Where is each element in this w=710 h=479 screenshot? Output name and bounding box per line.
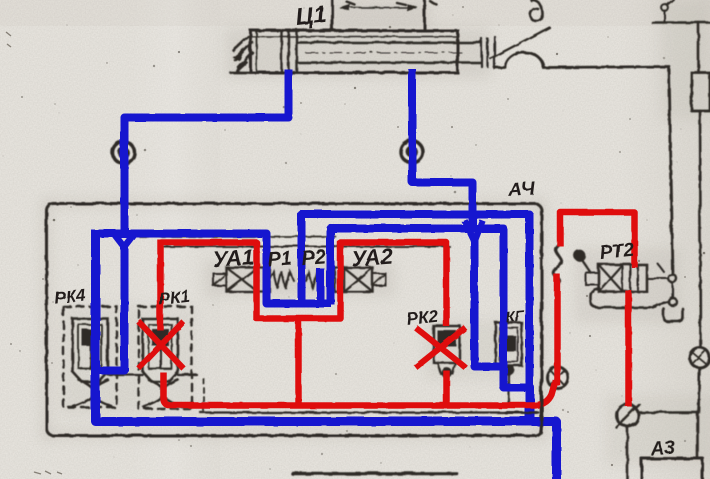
cylinder left clevis hatching	[233, 36, 252, 71]
position box P1	[257, 267, 269, 291]
cross-out X over RK2	[415, 327, 465, 367]
dashed enclosure RK1	[138, 306, 191, 408]
coupling node E	[689, 347, 709, 367]
wire blue: inner n-run through valve and KG	[330, 228, 530, 423]
cylinder U1 mounting box	[332, 0, 424, 30]
cylinder U1 rod	[296, 42, 481, 62]
drain hook	[663, 308, 682, 321]
right plug	[372, 273, 385, 285]
wire blue: upper left run to valve connector	[95, 233, 331, 303]
svg-text:РТ2: РТ2	[598, 239, 635, 263]
wire blue: center drop to KG valve	[474, 238, 501, 366]
small cock symbol top right	[661, 4, 668, 11]
hand valve RT2	[575, 251, 677, 306]
wire blue: V merge junction right	[464, 220, 482, 241]
left plug	[213, 273, 226, 285]
valve RK2	[433, 325, 459, 376]
valve KG	[495, 322, 521, 374]
wire right edge upper	[697, 22, 700, 72]
svg-text:УА1: УА1	[211, 243, 254, 271]
pipe break squiggle	[552, 243, 561, 281]
pipe under red top line	[163, 245, 449, 247]
valve RK1	[142, 318, 181, 406]
handwritten d mark	[530, 0, 542, 21]
cylinder U1 barrel	[250, 30, 457, 72]
leader line to label d	[490, 27, 549, 58]
cylinder centerline	[305, 51, 462, 53]
svg-text:УА2: УА2	[350, 243, 394, 271]
coupling node D with slash	[616, 404, 638, 426]
bulkhead grommet node left	[112, 141, 134, 163]
dashed enclosure RK4	[63, 306, 116, 407]
svg-text:Р1: Р1	[266, 247, 292, 271]
baseline below block	[292, 471, 456, 475]
svg-text:РК4: РК4	[53, 285, 87, 307]
svg-text:АЧ: АЧ	[506, 178, 535, 201]
pipe from rod end with hose loop, to right edge and down	[494, 52, 672, 274]
directional valve UA1/P1/P2/UA2	[213, 267, 385, 291]
solenoid UA1	[226, 267, 257, 291]
wire right edge lower	[699, 110, 700, 347]
wire red: drop to RK1	[157, 239, 164, 330]
top right supply line	[652, 21, 710, 24]
filter box right edge	[691, 72, 709, 110]
svg-text:Ц1: Ц1	[294, 0, 327, 30]
wire blue: V merge junction left	[114, 234, 134, 247]
wire blue: stub up to valve port	[316, 268, 324, 304]
pipe visible over red bus	[505, 411, 538, 413]
hydraulic block A4 enclosure	[46, 203, 541, 435]
pipe between RK4 and RK1	[107, 373, 196, 375]
wire red: branch at x298 to bus	[295, 318, 302, 404]
wire red: RK2 outlet to bus	[443, 370, 450, 404]
block edge crossing over bus	[540, 392, 543, 432]
svg-text:А3: А3	[648, 437, 675, 460]
wire from node D down	[626, 426, 629, 479]
wire red: node C up to squiggle	[554, 274, 561, 385]
cross-out X over RK1	[138, 321, 183, 368]
wire red: loop around UA1 and over to RK2	[160, 242, 446, 326]
cylinder rod end	[481, 36, 494, 68]
pipe under red bus	[200, 411, 536, 413]
svg-text:КГ: КГ	[504, 307, 525, 326]
wire red: RK1 outlet to pressure bus and up to node C	[163, 372, 555, 405]
coupling node C hatched	[547, 367, 568, 388]
pipe from KG valve down	[507, 365, 509, 402]
dimension arrow	[340, 6, 416, 8]
wire from node E to node D	[638, 367, 699, 457]
svg-text:Р2: Р2	[300, 246, 326, 270]
wire blue: down to jog	[95, 244, 124, 370]
valve RK4	[72, 318, 111, 406]
spring left	[269, 271, 293, 288]
pipe under blue left line	[139, 235, 335, 237]
dashed pipe stub	[202, 378, 204, 412]
pipe loop below RT2	[590, 288, 668, 307]
unit A3 box	[641, 458, 702, 479]
bulkhead grommet node right	[400, 140, 422, 162]
wire red: RT2 outlet down to node D	[625, 290, 632, 406]
cut-off marks top edge	[346, 1, 436, 4]
position box P2	[334, 267, 343, 291]
cylinder U1 piston	[281, 30, 296, 72]
spring right	[305, 272, 320, 287]
wire blue: cylinder left port to grommet and down	[124, 69, 288, 238]
wire blue: outer n-run	[301, 214, 529, 423]
wire blue: left drop and bottom return bus	[95, 229, 556, 479]
svg-text:РК2: РК2	[405, 306, 439, 328]
solenoid UA2	[343, 267, 372, 291]
wire blue: cylinder right port down	[412, 69, 472, 230]
wire red: over the top to RT2 inlet	[560, 212, 634, 267]
svg-text:РК1: РК1	[157, 286, 190, 308]
